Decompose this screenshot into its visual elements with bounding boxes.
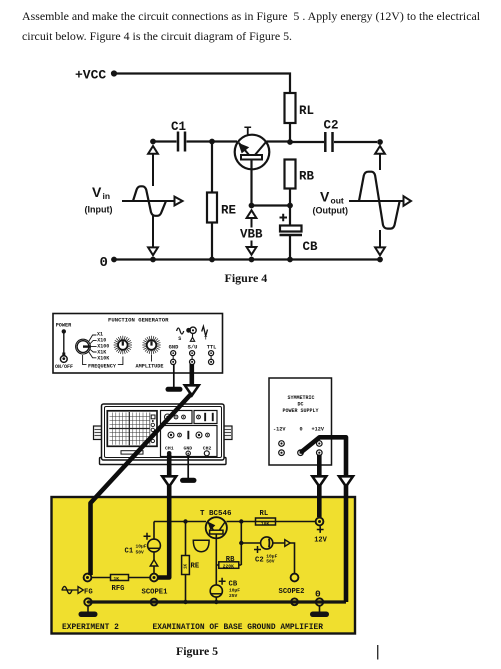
svg-text:0: 0 bbox=[100, 255, 108, 271]
svg-text:-12V: -12V bbox=[273, 427, 286, 433]
svg-text:10K: 10K bbox=[261, 521, 270, 527]
svg-text:CB: CB bbox=[303, 240, 319, 254]
svg-text:V: V bbox=[320, 189, 330, 205]
svg-text:CB: CB bbox=[229, 581, 238, 589]
svg-text:50V: 50V bbox=[266, 559, 275, 565]
svg-text:EXPERIMENT 2: EXPERIMENT 2 bbox=[62, 623, 119, 632]
svg-text:10µF: 10µF bbox=[229, 588, 240, 594]
svg-text:ON/OFF: ON/OFF bbox=[55, 364, 73, 370]
svg-text:+VCC: +VCC bbox=[75, 68, 106, 83]
svg-text:RE: RE bbox=[191, 563, 200, 571]
svg-text:(Output): (Output) bbox=[313, 206, 348, 216]
svg-text:RFG: RFG bbox=[112, 585, 125, 593]
svg-text:out: out bbox=[331, 196, 344, 206]
svg-text:Figure 5: Figure 5 bbox=[176, 644, 218, 658]
svg-text:POWER SUPPLY: POWER SUPPLY bbox=[283, 408, 319, 414]
svg-text:220K: 220K bbox=[223, 563, 234, 569]
svg-text:C1: C1 bbox=[171, 120, 186, 134]
svg-text:T BC546: T BC546 bbox=[200, 510, 232, 518]
svg-text:RL: RL bbox=[260, 510, 269, 518]
svg-text:50V: 50V bbox=[136, 550, 145, 556]
svg-text:FG: FG bbox=[84, 589, 93, 597]
svg-text:T: T bbox=[204, 336, 207, 342]
svg-text:T: T bbox=[244, 125, 252, 139]
svg-text:1K: 1K bbox=[114, 576, 120, 582]
svg-text:POWER: POWER bbox=[56, 323, 72, 329]
svg-text:SCOPE1: SCOPE1 bbox=[142, 589, 169, 597]
svg-text:FUNCTION GENERATOR: FUNCTION GENERATOR bbox=[108, 317, 169, 324]
svg-text:0: 0 bbox=[315, 589, 321, 600]
svg-text:TTL: TTL bbox=[207, 344, 217, 350]
svg-text:25V: 25V bbox=[229, 593, 238, 599]
svg-text:AMPLITUDE: AMPLITUDE bbox=[136, 364, 164, 370]
svg-text:(Input): (Input) bbox=[85, 205, 113, 215]
svg-text:GND: GND bbox=[169, 344, 179, 350]
svg-text:CH1: CH1 bbox=[165, 446, 174, 452]
svg-text:Figure 4: Figure 4 bbox=[225, 271, 268, 285]
svg-text:+12V: +12V bbox=[312, 427, 325, 433]
svg-text:X10K: X10K bbox=[97, 355, 109, 361]
svg-text:VBB: VBB bbox=[240, 228, 263, 242]
svg-text:1K: 1K bbox=[185, 563, 189, 569]
svg-text:S/U: S/U bbox=[188, 344, 198, 350]
svg-text:DC: DC bbox=[298, 402, 304, 408]
svg-text:RB: RB bbox=[226, 556, 235, 564]
svg-text:RE: RE bbox=[221, 204, 236, 218]
svg-text:S: S bbox=[178, 336, 181, 342]
svg-text:SYMMETRIC: SYMMETRIC bbox=[288, 395, 315, 401]
svg-text:10µF: 10µF bbox=[136, 544, 147, 550]
svg-text:0: 0 bbox=[300, 427, 303, 433]
svg-text:C1: C1 bbox=[125, 548, 134, 556]
svg-text:RB: RB bbox=[299, 170, 315, 184]
svg-text:C2: C2 bbox=[324, 119, 339, 133]
svg-text:FREQUENCY: FREQUENCY bbox=[88, 364, 117, 370]
svg-text:SCOPE2: SCOPE2 bbox=[279, 588, 305, 596]
svg-text:V: V bbox=[92, 184, 102, 200]
svg-text:EXAMINATION OF BASE GROUND AMP: EXAMINATION OF BASE GROUND AMPLIFIER bbox=[153, 623, 324, 632]
svg-text:C2: C2 bbox=[255, 557, 264, 565]
svg-text:12V: 12V bbox=[314, 537, 327, 545]
svg-text:in: in bbox=[103, 191, 111, 201]
svg-text:RL: RL bbox=[299, 104, 314, 118]
